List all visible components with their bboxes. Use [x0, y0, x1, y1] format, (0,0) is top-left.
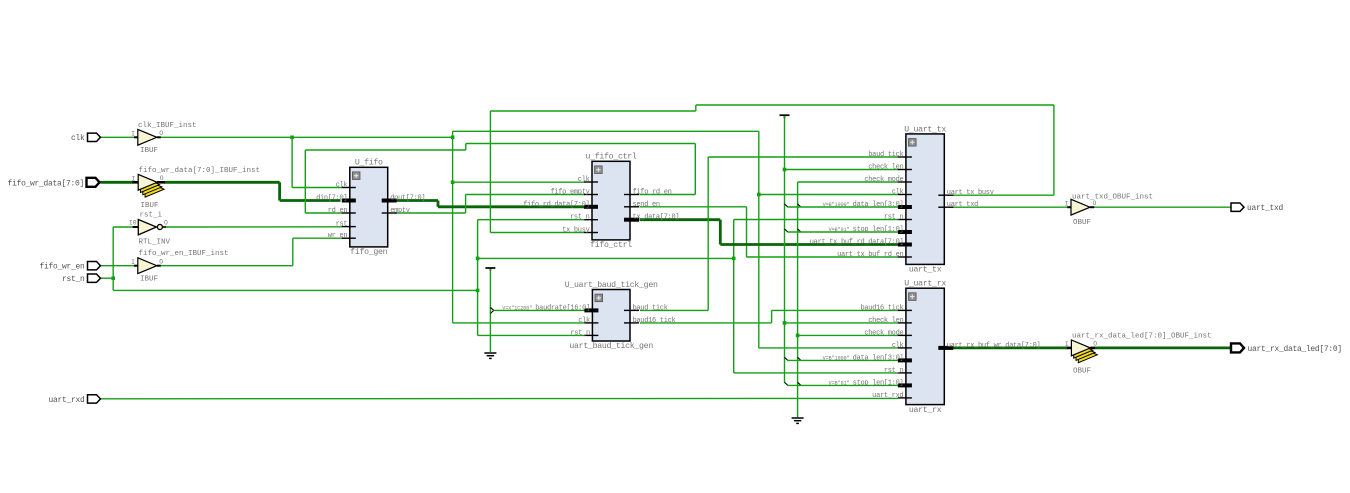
power VCC bar (baudrate constant)	[485, 268, 495, 352]
junction VCC/check_len tx	[783, 168, 787, 172]
svg-text:rst_n: rst_n	[884, 367, 904, 375]
ground GND rail (check_mode / constants)	[792, 182, 898, 423]
svg-text:U_uart_tx: U_uart_tx	[904, 125, 946, 134]
svg-text:uart_tx_buf_rd_data[7:0]: uart_tx_buf_rd_data[7:0]	[810, 239, 904, 247]
svg-text:RTL_INV: RTL_INV	[139, 239, 171, 247]
svg-text:OBUF: OBUF	[1073, 367, 1091, 375]
svg-text:clk: clk	[892, 189, 904, 197]
svg-text:rst_n: rst_n	[884, 214, 904, 222]
svg-text:uart_rxd: uart_rxd	[872, 392, 903, 400]
svg-text:uart_rx_data_led[7:0]_OBUF_ins: uart_rx_data_led[7:0]_OBUF_inst	[1072, 333, 1212, 341]
svg-text:uart_tx_busy: uart_tx_busy	[947, 189, 994, 197]
svg-text:clk_IBUF_inst: clk_IBUF_inst	[138, 122, 197, 130]
svg-text:O: O	[164, 220, 168, 227]
svg-text:rst_n: rst_n	[570, 214, 590, 222]
svg-text:baud_tick: baud_tick	[868, 151, 903, 159]
svg-text:I: I	[131, 259, 135, 266]
svg-text:baud16_tick: baud16_tick	[860, 304, 903, 312]
svg-text:rst: rst	[336, 221, 348, 229]
port rst_n (input)	[62, 274, 100, 284]
wire send_en net	[640, 207, 899, 257]
svg-text:V=B"01" stop_len[1:0]: V=B"01" stop_len[1:0]	[829, 226, 904, 234]
junction rst_n port	[111, 276, 115, 280]
svg-text:I: I	[132, 176, 136, 183]
module U_uart_rx (uart_rx)	[823, 280, 1041, 415]
svg-text:fifo_gen: fifo_gen	[350, 247, 388, 257]
module U_uart_baud_tick_gen (uart_baud_tick_gen)	[502, 280, 675, 351]
svg-text:fifo_rd_en: fifo_rd_en	[633, 189, 672, 197]
svg-text:O: O	[159, 258, 163, 265]
svg-text:clk: clk	[336, 182, 348, 190]
svg-text:clk: clk	[578, 317, 590, 325]
constant tap V=X"1C200" baudrate	[490, 307, 584, 313]
svg-text:tx_data[7:0]: tx_data[7:0]	[633, 214, 680, 222]
wire fifo_wr_en net	[101, 238, 343, 266]
svg-text:IBUF: IBUF	[141, 202, 159, 210]
port uart_rxd (input)	[49, 395, 101, 405]
svg-text:O: O	[1093, 200, 1097, 207]
power VCC rail (check_len / constants)	[780, 115, 899, 382]
wire fifo empty net	[395, 195, 584, 214]
buffer fifo_wr_en_IBUF_inst (IBUF)	[131, 250, 228, 283]
svg-text:I: I	[1064, 201, 1068, 208]
wire uart_rxd net	[101, 397, 898, 399]
svg-text:tx_busy: tx_busy	[562, 227, 589, 235]
port uart_txd (output)	[1231, 203, 1283, 213]
wire tx_data[7:0] bus	[640, 220, 899, 245]
constant tap V=B"1000" data_len uart_tx	[785, 204, 899, 207]
wire baud_tick net	[640, 157, 898, 310]
svg-text:fifo_rd_data[7:0]: fifo_rd_data[7:0]	[523, 201, 589, 209]
svg-text:uart_txd: uart_txd	[1247, 204, 1283, 213]
svg-text:uart_rxd: uart_rxd	[49, 396, 85, 405]
svg-text:rst_i: rst_i	[140, 212, 163, 220]
junction rst_n uart	[732, 257, 736, 261]
svg-text:clk: clk	[578, 176, 590, 184]
svg-text:OBUF: OBUF	[1073, 219, 1091, 227]
wire uart_tx_busy net	[490, 105, 1054, 233]
wire fifo_wr_data[7:0] bus	[101, 182, 341, 200]
wire rst_i (inverter output to fifo rst)	[166, 226, 343, 228]
junction rst_n row291	[476, 289, 480, 293]
svg-text:empty: empty	[390, 207, 410, 215]
junction GND/check_mode rx	[796, 334, 800, 338]
svg-text:U_fifo: U_fifo	[355, 158, 383, 168]
port fifo_wr_data[7:0] (input bus)	[8, 178, 100, 189]
svg-text:uart_txd_OBUF_inst: uart_txd_OBUF_inst	[1072, 193, 1153, 201]
svg-text:baud16_tick: baud16_tick	[633, 317, 676, 325]
svg-text:V=B"1000" data_len[3:0]: V=B"1000" data_len[3:0]	[823, 201, 904, 209]
svg-text:fifo_wr_data[7:0]_IBUF_inst: fifo_wr_data[7:0]_IBUF_inst	[139, 167, 261, 175]
wire rst_n net	[100, 220, 898, 373]
svg-text:uart_rx_data_led[7:0]: uart_rx_data_led[7:0]	[1248, 345, 1342, 354]
junction clk/fifo	[290, 136, 294, 140]
junction VCC/check_len rx	[783, 321, 787, 325]
constant tap V=B"1000" data_len uart_rx	[785, 357, 899, 360]
svg-text:fifo_wr_data[7:0]: fifo_wr_data[7:0]	[8, 179, 84, 188]
svg-text:uart_baud_tick_gen: uart_baud_tick_gen	[569, 341, 653, 351]
svg-text:fifo_ctrl: fifo_ctrl	[590, 240, 632, 250]
port uart_rx_data_led[7:0] (output bus)	[1231, 343, 1342, 354]
svg-text:clk: clk	[71, 134, 85, 143]
svg-text:O: O	[1093, 341, 1097, 348]
svg-text:I: I	[1065, 341, 1069, 348]
svg-text:uart_txd: uart_txd	[947, 201, 978, 209]
svg-text:u_fifo_ctrl: u_fifo_ctrl	[585, 152, 636, 162]
wire uart_txd net	[952, 206, 1231, 208]
svg-text:dout[7:0]: dout[7:0]	[390, 195, 425, 203]
svg-text:check_mode: check_mode	[864, 329, 903, 337]
svg-text:uart_rx: uart_rx	[909, 406, 942, 415]
inverter rst_i (RTL_INV)	[129, 212, 171, 247]
svg-text:V=B"01" stop_len[1:0]: V=B"01" stop_len[1:0]	[829, 379, 904, 387]
svg-text:fifo_wr_en: fifo_wr_en	[40, 263, 85, 272]
svg-text:I0: I0	[129, 220, 137, 227]
svg-text:wr_en: wr_en	[328, 232, 348, 240]
wire uart_rx_buf_wr_data[7:0] bus	[952, 346, 1231, 349]
svg-text:rst_n: rst_n	[570, 329, 590, 337]
wire baud16_tick net	[640, 310, 898, 323]
svg-text:O: O	[160, 175, 164, 182]
svg-text:send_en: send_en	[633, 201, 660, 209]
svg-text:uart_tx_buf_rd_en: uart_tx_buf_rd_en	[837, 251, 903, 259]
junction rst_n row258	[476, 257, 480, 261]
svg-text:check_len: check_len	[868, 317, 903, 325]
module U_fifo (fifo_gen)	[316, 158, 425, 257]
svg-text:clk: clk	[892, 342, 904, 350]
svg-text:IBUF: IBUF	[140, 276, 158, 284]
svg-text:U_uart_rx: U_uart_rx	[904, 280, 946, 289]
svg-text:uart_tx: uart_tx	[909, 266, 942, 275]
constant tap V=B"01" stop_len uart_tx	[785, 229, 899, 232]
junction clk/uart_tx	[757, 193, 761, 197]
svg-text:U_uart_baud_tick_gen: U_uart_baud_tick_gen	[565, 280, 658, 290]
ground GND (baudrate constant)	[484, 353, 496, 358]
svg-text:IBUF: IBUF	[140, 147, 158, 155]
wire fifo_rd_en net	[305, 144, 695, 214]
wire clk net	[101, 131, 899, 348]
svg-text:uart_rx_buf_wr_data[7:0]: uart_rx_buf_wr_data[7:0]	[947, 342, 1041, 350]
buffer clk_IBUF_inst (IBUF)	[131, 122, 196, 155]
buffer uart_rx_data_led[7:0]_OBUF_inst (OBUF x8)	[1065, 333, 1212, 376]
module u_fifo_ctrl (fifo_ctrl)	[523, 152, 679, 250]
svg-text:V=B"1000" data_len[3:0]: V=B"1000" data_len[3:0]	[823, 354, 904, 362]
module U_uart_tx (uart_tx)	[810, 125, 994, 274]
svg-text:din[7:0]: din[7:0]	[316, 195, 347, 203]
svg-text:rd_en: rd_en	[328, 207, 348, 215]
svg-text:check_len: check_len	[868, 164, 903, 172]
svg-text:baud_tick: baud_tick	[633, 304, 668, 312]
port clk (input)	[71, 133, 101, 143]
constant tap V=B"01" stop_len uart_rx	[785, 382, 899, 385]
buffer uart_txd_OBUF_inst (OBUF)	[1064, 193, 1153, 227]
svg-text:fifo_empty: fifo_empty	[550, 189, 589, 197]
junction clk/fifo_ctrl	[451, 180, 455, 184]
svg-text:O: O	[159, 130, 163, 137]
svg-text:I: I	[131, 131, 135, 138]
junction clk main	[451, 136, 455, 140]
svg-text:rst_n: rst_n	[62, 275, 85, 284]
svg-text:fifo_wr_en_IBUF_inst: fifo_wr_en_IBUF_inst	[139, 250, 229, 258]
port fifo_wr_en (input)	[40, 262, 101, 272]
wire fifo dout[7:0] bus	[395, 201, 584, 207]
svg-text:check_mode: check_mode	[864, 176, 903, 184]
svg-text:V=X"1C200" baudrate[16:0]: V=X"1C200" baudrate[16:0]	[502, 304, 590, 312]
buffer fifo_wr_data[7:0]_IBUF_inst (IBUF x8)	[132, 167, 260, 210]
